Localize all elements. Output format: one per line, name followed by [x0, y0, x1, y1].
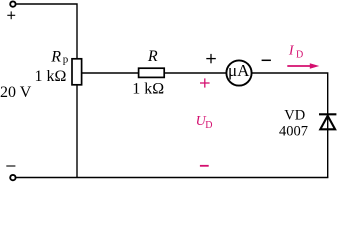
terminal + (top-left)	[10, 1, 15, 6]
wire wiper to R	[82, 72, 139, 74]
svg-text:1 kΩ: 1 kΩ	[132, 81, 164, 98]
arrow ID (magenta)	[287, 63, 319, 69]
svg-text:VD: VD	[284, 107, 305, 123]
minus polarity mark	[6, 165, 15, 167]
svg-text:μA: μA	[228, 61, 250, 80]
potentiometer Rp	[72, 59, 82, 85]
wire top-left (top rail + upper left vertical)	[16, 4, 77, 59]
svg-text:p: p	[63, 53, 69, 65]
wire meter to right corner + right vertical	[252, 73, 328, 178]
minus magenta (UD -)	[200, 165, 209, 167]
diode VD (triangle)	[320, 116, 335, 130]
svg-text:1 kΩ: 1 kΩ	[35, 68, 67, 85]
wire R to meter	[164, 72, 226, 74]
terminal - (bottom-left)	[10, 175, 15, 180]
svg-text:I: I	[288, 44, 295, 59]
svg-text:4007: 4007	[279, 124, 308, 140]
plus magenta (UD +)	[200, 78, 210, 87]
minus sign black (meter -)	[262, 59, 271, 61]
svg-text:D: D	[205, 120, 212, 131]
plus polarity mark	[7, 11, 15, 19]
diode VD (cathode bar)	[319, 113, 336, 115]
resistor R	[139, 68, 165, 77]
svg-text:R: R	[147, 48, 158, 65]
svg-text:D: D	[296, 50, 303, 61]
svg-text:20 V: 20 V	[0, 84, 32, 101]
wire bottom rail	[16, 177, 328, 179]
svg-text:R: R	[50, 49, 61, 66]
ammeter uA	[226, 60, 251, 85]
plus sign black (meter +)	[206, 54, 216, 63]
wire left vertical lower	[76, 85, 78, 178]
